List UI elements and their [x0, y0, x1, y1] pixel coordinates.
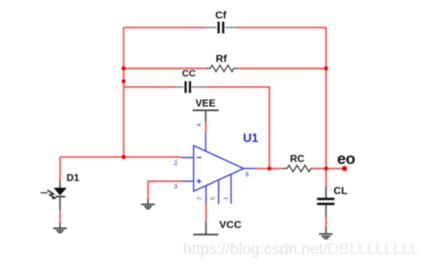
ground at non-inverting input: [141, 204, 155, 208]
svg-text:https://blog.csdn.net/DBLLLLLL: https://blog.csdn.net/DBLLLLLLLL: [183, 241, 419, 258]
wire D1 anode drop: [59, 157, 61, 188]
node eo: [337, 151, 356, 171]
power VCC: [193, 219, 242, 235]
wire D1 cathode to ground: [59, 197, 61, 229]
wire output line from pin 6: [256, 168, 283, 170]
power VEE: [193, 99, 219, 122]
capacitor CC: [175, 68, 207, 93]
wire VEE to op-amp pin 4: [205, 122, 207, 134]
svg-text:VCC: VCC: [219, 219, 242, 231]
junction node CC drop / output: [267, 167, 271, 171]
svg-text:RC: RC: [290, 154, 304, 165]
wire top Cf feedback right segment: [237, 27, 327, 29]
wire left feedback rail: [123, 28, 125, 158]
capacitor CL: [317, 185, 348, 204]
junction node right rail / output: [324, 167, 328, 171]
watermark: [183, 241, 419, 258]
photodiode D1: [41, 173, 80, 199]
wire right rail into CL: [325, 187, 327, 199]
op-amp U1: [174, 123, 259, 204]
wire CC line right segment with drop to output: [206, 87, 269, 169]
junction node left rail / CC tap: [122, 79, 126, 83]
junction node left rail / Rf: [122, 66, 126, 70]
wire right feedback rail: [325, 28, 327, 187]
wire CC line left segment: [124, 86, 175, 88]
ground under D1: [53, 228, 67, 232]
resistor RC: [283, 154, 315, 172]
svg-text:eo: eo: [337, 151, 356, 168]
wire RC to eo terminal: [311, 168, 345, 170]
wire Rf line right segment: [238, 67, 326, 69]
junction node right rail / Rf: [324, 66, 328, 70]
resistor Rf: [206, 53, 238, 72]
svg-text:VEE: VEE: [196, 99, 216, 110]
ground under CL: [319, 234, 332, 238]
svg-text:CC: CC: [182, 68, 196, 79]
svg-text:5: 5: [211, 197, 217, 200]
wire Rf line left segment: [124, 67, 206, 69]
wire top Cf feedback left segment: [124, 27, 206, 29]
junction node left rail / input line: [122, 155, 126, 159]
svg-text:D1: D1: [67, 173, 80, 184]
svg-text:U1: U1: [243, 131, 259, 145]
wire non-inverting input to ground drop: [148, 181, 181, 204]
svg-text:Cf: Cf: [215, 9, 227, 21]
capacitor Cf: [206, 9, 237, 33]
svg-text:1: 1: [224, 197, 230, 200]
svg-text:4: 4: [197, 123, 203, 126]
svg-text:Rf: Rf: [216, 53, 228, 65]
wire pin 7 to VCC: [205, 204, 207, 221]
wire inverting input line from D1 to op-amp: [60, 156, 181, 158]
svg-text:7: 7: [198, 197, 204, 200]
wire CL to ground: [325, 205, 327, 234]
svg-text:CL: CL: [334, 185, 349, 197]
